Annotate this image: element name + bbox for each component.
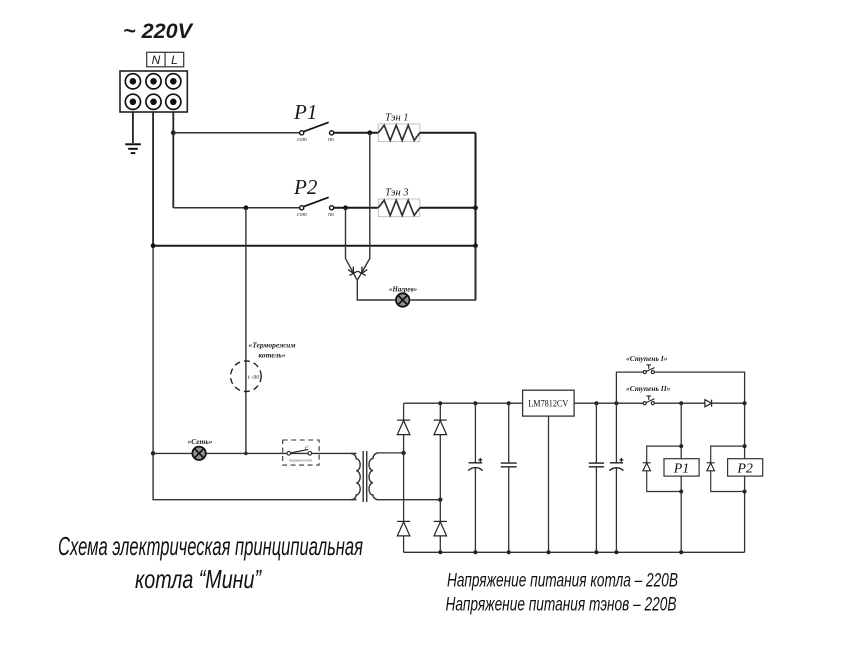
resistor Тэн 1	[378, 113, 420, 142]
svg-text:Схема электрическая принципиал: Схема электрическая принципиальная	[58, 531, 363, 561]
wire N down to bottom-left corner	[153, 453, 351, 499]
node P1-lamp branch	[367, 130, 372, 135]
node L-P1	[171, 130, 176, 135]
wire stage1 to P2	[654, 372, 744, 403]
svg-text:N: N	[152, 53, 161, 67]
transformer core	[362, 451, 364, 502]
wire PE down	[132, 112, 134, 143]
wire N bus horizontal	[153, 245, 475, 247]
relay coil P2	[728, 459, 763, 477]
node rail C3	[594, 401, 598, 405]
diode VD1	[397, 420, 410, 435]
wire P2 no to R2	[334, 207, 379, 209]
svg-text:P1: P1	[293, 100, 317, 124]
freewheel diode VD7 loop	[711, 446, 745, 491]
svg-text:com: com	[297, 137, 307, 143]
node rail VD2	[438, 401, 442, 405]
lamp Сеть	[187, 437, 212, 460]
relay coil P1	[664, 459, 699, 477]
terminal label box N L	[147, 52, 184, 67]
svg-text:P2: P2	[293, 175, 318, 199]
node minus VD4	[438, 550, 442, 554]
wire P1 no to R1	[334, 132, 379, 134]
wire L down	[172, 112, 174, 208]
node rail C2	[507, 401, 511, 405]
node rail stage1 branch	[614, 401, 618, 405]
wire stage1 branch up	[616, 372, 644, 403]
wire lamp branch from P1	[358, 133, 370, 280]
node net line left	[151, 451, 155, 455]
wire U1 output rail	[574, 402, 644, 404]
svg-text:no: no	[328, 137, 334, 143]
node minus C2	[507, 550, 511, 554]
wire P1 feed	[173, 132, 299, 134]
node minus P1	[679, 550, 683, 554]
resistor Тэн 3	[378, 188, 420, 217]
wire diode to P2 coil	[712, 402, 745, 404]
freewheel diode VD6 loop	[647, 446, 682, 491]
terminal block X1	[120, 71, 187, 112]
node minus C1	[473, 550, 477, 554]
switch P2	[297, 197, 334, 218]
switch Ступень II	[643, 396, 654, 405]
diode VD5	[705, 400, 712, 407]
wire R1 to right bus	[420, 132, 476, 134]
svg-text:«Ступень I»: «Ступень I»	[626, 354, 668, 363]
node minus U1	[547, 550, 551, 554]
svg-text:Напряжение питания котла – 220: Напряжение питания котла – 220В	[447, 570, 678, 592]
wire right bus vertical	[475, 133, 477, 300]
wire lamp branch from P2	[346, 208, 357, 280]
wire N down to lamp row	[152, 246, 154, 454]
node P1 loop top	[679, 444, 683, 448]
wire thermostat branch	[245, 208, 247, 453]
thermal cutout dashed box	[283, 440, 319, 465]
node rail C1	[473, 401, 477, 405]
wire P2 coil line	[744, 403, 746, 552]
capacitor C1	[468, 403, 482, 552]
node P2 thermostat branch	[244, 205, 249, 210]
svg-text:«Сеть»: «Сеть»	[187, 437, 212, 446]
node rail P1 coil	[679, 401, 683, 405]
wire DC minus rail	[404, 551, 745, 553]
node secondary top	[401, 451, 405, 455]
svg-text:com: com	[297, 212, 307, 218]
svg-text:котла “Мини”: котла “Мини”	[135, 564, 262, 594]
wire secondary top	[378, 452, 404, 454]
capacitor C2	[501, 403, 517, 552]
node minus C4	[614, 550, 618, 554]
node right bus mid	[473, 243, 478, 248]
svg-text:Напряжение питания тэнов – 220: Напряжение питания тэнов – 220В	[446, 594, 677, 616]
node secondary bottom	[438, 498, 442, 502]
svg-text:Тэн 3: Тэн 3	[385, 188, 409, 199]
node minus C3	[594, 550, 598, 554]
wire stage2 rail right	[654, 402, 705, 404]
ground	[125, 144, 141, 153]
diode VD3	[397, 521, 410, 536]
svg-text:P2: P2	[736, 462, 753, 477]
node P2-lamp branch	[343, 205, 348, 210]
svg-text:термостат: термостат	[289, 458, 313, 463]
svg-text:L: L	[171, 53, 178, 67]
svg-text:~ 220V: ~ 220V	[123, 20, 194, 43]
regulator U1 LM7812CV	[523, 390, 575, 416]
svg-text:«Нагрев»: «Нагрев»	[389, 286, 418, 294]
wire U1 ground pin	[548, 416, 550, 552]
svg-text:«Ступень II»: «Ступень II»	[626, 384, 671, 393]
wire Сеть line	[153, 452, 351, 454]
capacitor C3	[589, 403, 604, 552]
capacitor C4	[609, 403, 623, 552]
svg-text:P1: P1	[673, 462, 690, 477]
thermostat dashed circle	[231, 341, 296, 392]
transformer T1 secondary	[369, 453, 378, 500]
bridge right leg	[439, 403, 441, 552]
node thermostat-net	[244, 452, 248, 456]
wire secondary bottom	[378, 499, 440, 501]
svg-text:no: no	[328, 212, 334, 218]
node P2 coil top	[743, 401, 747, 405]
transformer T1 primary	[351, 453, 360, 499]
wire R2 to right bus	[420, 207, 476, 209]
lamp Нагрев	[389, 286, 418, 307]
node R2 right	[473, 205, 478, 210]
connector arrow right	[358, 267, 368, 276]
diode VD2	[434, 420, 447, 435]
node P2 loop bottom	[743, 490, 747, 494]
node P1 loop bottom	[679, 490, 683, 494]
svg-text:t -90: t -90	[248, 375, 259, 381]
diode VD4	[434, 521, 447, 536]
node P2 loop top	[743, 444, 747, 448]
svg-text:«Терморежим: «Терморежим	[249, 341, 296, 350]
bridge left leg	[403, 403, 405, 552]
svg-text:Тэн 1: Тэн 1	[385, 113, 409, 124]
switch P1	[297, 122, 334, 143]
svg-text:котель»: котель»	[258, 351, 285, 360]
wire N down	[152, 112, 154, 246]
wire to lamp Нагрев	[357, 279, 396, 300]
wire DC plus rail	[404, 402, 523, 404]
wire P1 coil line	[680, 403, 682, 552]
node N bus left	[151, 243, 156, 248]
switch Ступень I	[643, 365, 654, 374]
wire L-P2 feed	[173, 207, 299, 209]
wire lamp to right bus	[409, 246, 475, 300]
connector arrow left	[348, 267, 358, 276]
svg-text:LM7812CV: LM7812CV	[528, 399, 568, 409]
